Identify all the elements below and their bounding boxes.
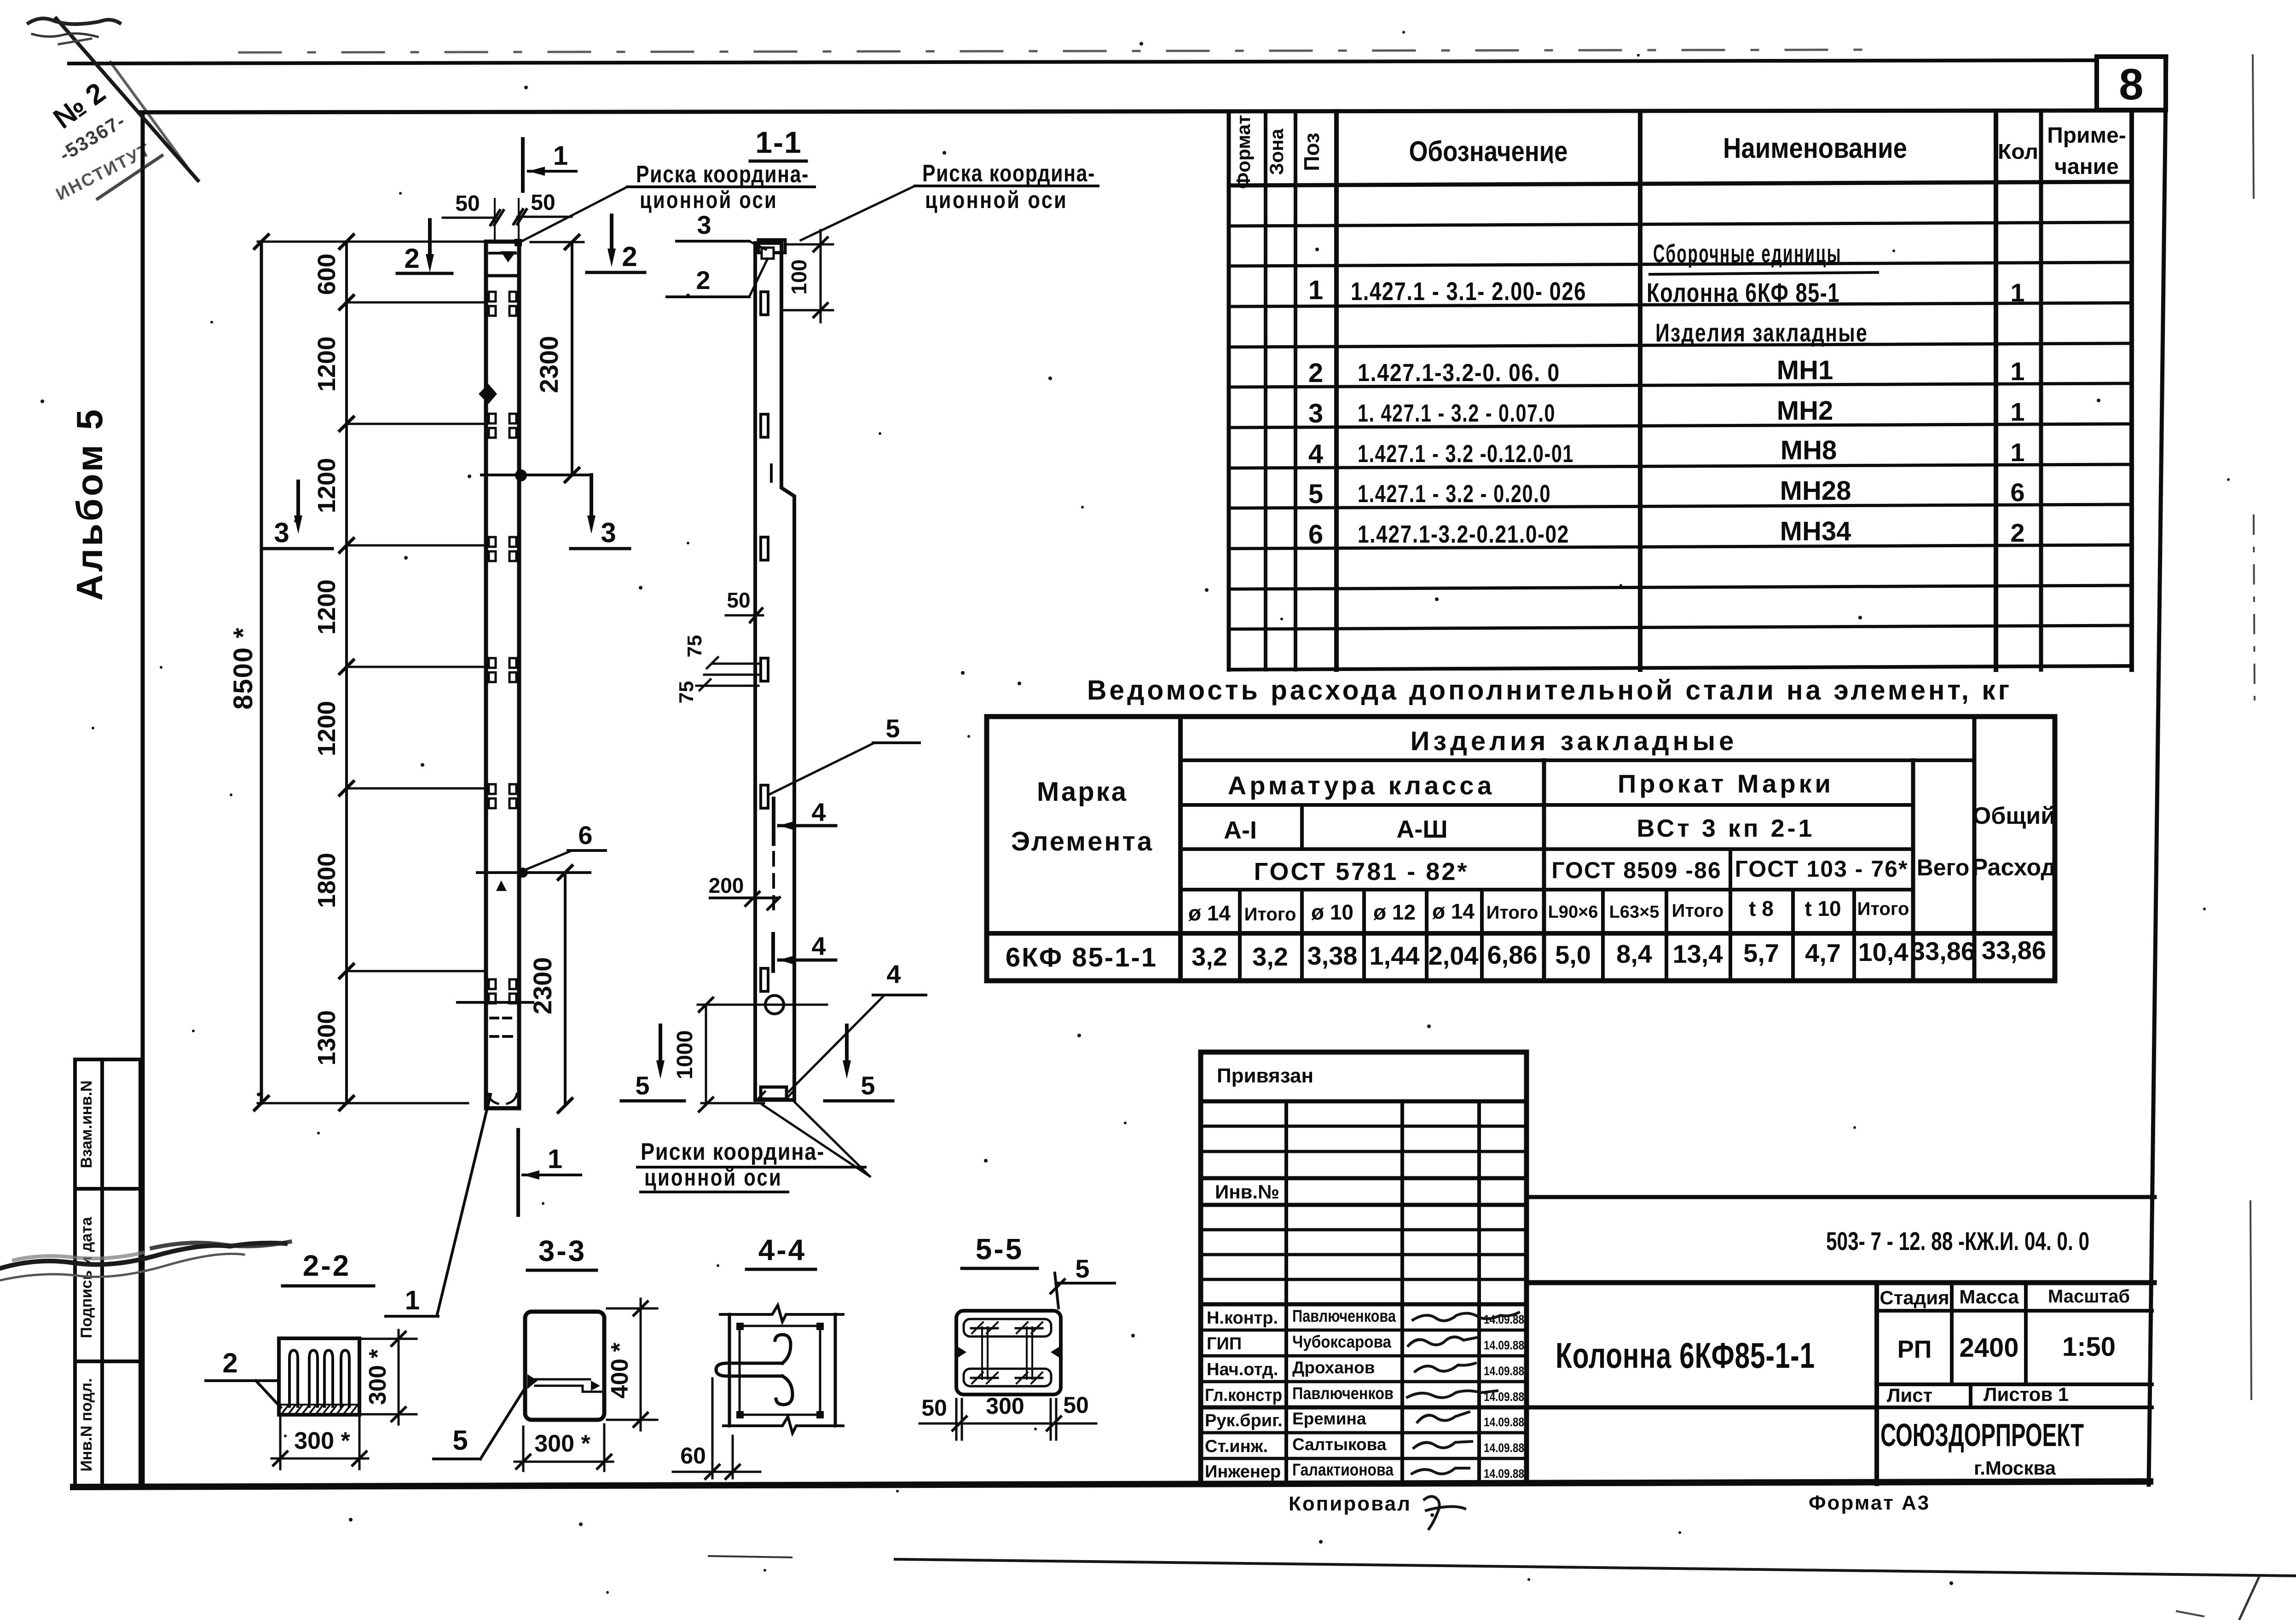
svg-text:А-I: А-I [1224,816,1257,844]
section mark 1 bottom [516,1130,520,1215]
section mark 2 left [428,220,432,258]
svg-text:5: 5 [885,714,900,743]
svg-text:Масштаб: Масштаб [2048,1286,2130,1307]
riska diamond left edge [479,384,497,404]
svg-text:4: 4 [811,798,826,827]
svg-text:Лист: Лист [1887,1384,1932,1406]
svg-text:3: 3 [601,517,616,548]
svg-text:Элемента: Элемента [1011,827,1154,856]
bottom slot [964,1369,1051,1386]
section 4-4 break top [720,1305,843,1322]
svg-text:3,38: 3,38 [1307,941,1358,970]
svg-text:4: 4 [811,931,826,960]
TITLE BLOCK stamp table grid [1201,1052,1527,1484]
svg-text:ø 14: ø 14 [1432,899,1475,923]
PARTS LIST TABLE grid [1229,111,2132,670]
svg-text:2-2: 2-2 [303,1249,351,1282]
svg-text:600: 600 [313,254,341,295]
svg-text:3,2: 3,2 [1252,942,1288,971]
section mark 3 left [296,481,300,519]
section 4-4 break bottom [723,1417,843,1433]
svg-text:5: 5 [861,1071,875,1100]
svg-text:14.09.88: 14.09.88 [1484,1313,1524,1326]
base plate [761,1087,787,1099]
section mark 4 upper [772,798,775,844]
svg-text:2300: 2300 [528,957,557,1015]
svg-text:2: 2 [1308,358,1323,388]
base corner notch left [488,1094,498,1104]
signature squiggles [1407,1313,1519,1474]
svg-text:Риски координа-: Риски координа- [641,1139,825,1165]
chain hatch ticks [340,235,353,1110]
svg-text:ционной оси: ционной оси [644,1164,782,1191]
svg-text:1.427.1 - 3.2 -0.12.0-01: 1.427.1 - 3.2 -0.12.0-01 [1358,440,1574,468]
drawing frame bottom [73,1481,2150,1487]
svg-text:Общий: Общий [1972,803,2055,829]
svg-text:ГИП: ГИП [1207,1334,1242,1354]
dim 50 right [517,216,572,218]
svg-text:чание: чание [2054,155,2119,179]
sheet number box [2097,57,2166,110]
margin box Vzam.inv.N [75,1059,140,1189]
svg-text:Чубоксарова: Чубоксарова [1292,1332,1391,1351]
dim 300 bottom [279,1417,282,1469]
svg-text:1.427.1-3.2-0.21.0-02: 1.427.1-3.2-0.21.0-02 [1358,521,1569,548]
svg-text:Поз: Поз [1300,133,1324,171]
section 4-4 sides [728,1314,731,1426]
svg-text:Ст.инж.: Ст.инж. [1205,1437,1268,1456]
svg-text:L90×6: L90×6 [1548,903,1598,922]
axis mark line 2300 bottom level [477,871,590,874]
svg-text:Ведомость расхода дополнител: Ведомость расхода дополнительной стали н… [1087,675,2012,706]
svg-text:Масса: Масса [1959,1286,2019,1308]
svg-text:200: 200 [709,874,744,897]
svg-text:33,86: 33,86 [1911,937,1975,966]
svg-text:Н.контр.: Н.контр. [1207,1308,1278,1328]
svg-text:503- 7 - 12. 88 -КЖ.И. 04. 0.: 503- 7 - 12. 88 -КЖ.И. 04. 0. 0 [1826,1227,2089,1255]
smudge streak left middle [0,1243,285,1268]
top slot [964,1319,1051,1336]
svg-text:ГОСТ 5781 - 82*: ГОСТ 5781 - 82* [1254,858,1469,885]
margin box Inv.N podl [75,1361,140,1487]
svg-text:50: 50 [1063,1392,1089,1418]
extension lines levels [258,242,486,1103]
svg-text:3-3: 3-3 [538,1234,587,1267]
svg-text:300 *: 300 * [534,1430,590,1457]
svg-text:50: 50 [921,1395,947,1421]
svg-text:75: 75 [675,681,698,704]
torn paper scribble top-left [29,18,120,24]
svg-text:ционной оси: ционной оси [925,187,1068,214]
svg-text:г.Москва: г.Москва [1974,1457,2056,1479]
svg-text:1: 1 [2010,397,2024,426]
svg-text:3: 3 [274,517,289,548]
svg-text:1: 1 [2010,438,2024,467]
drawing frame top [141,110,2166,112]
svg-text:3: 3 [1308,399,1323,428]
dashed axis segment [772,852,775,909]
hook bar [716,1363,782,1376]
svg-text:1200: 1200 [313,336,341,392]
svg-text:10,4: 10,4 [1858,937,1909,966]
svg-text:5,7: 5,7 [1743,938,1779,967]
svg-text:Копировал: Копировал [1289,1493,1411,1515]
svg-text:300: 300 [986,1393,1024,1419]
side notch right [1051,1346,1061,1359]
svg-text:Еремина: Еремина [1292,1409,1366,1428]
bottom ext line [701,1102,764,1105]
dim 50 300 50 [955,1399,958,1440]
svg-text:Рук.бриг.: Рук.бриг. [1205,1411,1283,1430]
svg-text:3: 3 [697,210,711,239]
dim 50 mid [726,614,763,617]
anchor stud right [1026,1327,1028,1379]
riski leaders [793,1101,870,1176]
svg-text:1000: 1000 [673,1030,697,1080]
section mark 2 right [610,215,613,252]
svg-text:5: 5 [1308,479,1323,509]
svg-text:Итого: Итого [1672,901,1724,921]
svg-text:8,4: 8,4 [1616,939,1652,968]
svg-text:Риска координа-: Риска координа- [922,160,1095,187]
svg-text:Риска координа-: Риска координа- [636,161,809,188]
riska label left top [522,187,627,241]
svg-text:6КФ 85-1-1: 6КФ 85-1-1 [1006,943,1157,972]
leader 5 [769,743,874,794]
center dash upper [770,465,773,481]
svg-text:14.09.88: 14.09.88 [1484,1338,1524,1352]
svg-text:4-4: 4-4 [758,1233,807,1267]
svg-text:6: 6 [1308,520,1323,550]
drawing frame right [2149,57,2166,1485]
svg-text:1: 1 [553,141,568,171]
svg-text:75: 75 [683,635,706,658]
svg-text:6,86: 6,86 [1487,940,1538,969]
dim 1000 [705,1005,707,1105]
embedded slot s6 [761,968,768,991]
svg-text:1.427.1 - 3.1- 2.00- 026: 1.427.1 - 3.1- 2.00- 026 [1351,277,1586,306]
svg-text:Колонна 6КФ85-1-1: Колонна 6КФ85-1-1 [1556,1335,1815,1376]
column body outline [486,242,519,1108]
svg-text:33,86: 33,86 [1982,936,2046,965]
svg-text:МН2: МН2 [1777,396,1833,426]
margin box Podpis i data [75,1189,140,1361]
svg-text:Салтыкова: Салтыкова [1292,1435,1387,1454]
kopiroval squiggle [1424,1496,1465,1529]
embedded slot s2 [761,414,768,437]
svg-text:Инв.N подл.: Инв.N подл. [78,1378,95,1472]
section 5-5 outline [956,1311,1061,1394]
title block right part grid [1527,1197,2155,1484]
section 2-2 square [279,1338,359,1415]
riska label right top [801,186,915,240]
plate inside [535,1378,590,1381]
svg-text:Вего: Вего [1917,855,1970,880]
svg-text:Гл.констр: Гл.констр [1205,1386,1282,1405]
top dash-dot fold line [239,50,1878,52]
svg-text:1.427.1 - 3.2 - 0.20.0: 1.427.1 - 3.2 - 0.20.0 [1358,480,1551,508]
embedded slot s1 [761,292,768,315]
svg-text:Расход: Расход [1972,854,2056,881]
riska dot right edge [515,469,527,481]
edge slot pair level 5 [489,784,516,808]
svg-text:Павлюченков: Павлюченков [1292,1384,1394,1403]
svg-text:ционной оси: ционной оси [640,187,778,214]
svg-text:Дроханов: Дроханов [1292,1358,1375,1377]
svg-text:400 *: 400 * [607,1342,633,1399]
svg-text:1.427.1-3.2-0. 06. 0: 1.427.1-3.2-0. 06. 0 [1358,359,1560,387]
svg-text:СОЮЗДОРПРОЕКТ: СОЮЗДОРПРОЕКТ [1880,1417,2084,1453]
plate hatch band [279,1405,359,1414]
edge slot pair level 2 [489,414,516,438]
svg-text:1: 1 [548,1144,562,1174]
svg-text:Наименование: Наименование [1723,133,1907,164]
section mark 1 top [521,139,525,191]
svg-text:50: 50 [727,588,750,612]
column top section line 2-2 level [486,274,519,278]
svg-text:60: 60 [680,1443,706,1469]
svg-text:4: 4 [886,960,901,989]
svg-text:1200: 1200 [313,458,341,513]
svg-text:ГОСТ 103 - 76*: ГОСТ 103 - 76* [1735,856,1909,882]
svg-text:5,0: 5,0 [1555,940,1591,969]
dim 2300 lower [564,873,567,1105]
svg-text:Кол: Кол [1998,139,2038,163]
svg-text:Изделия закладные: Изделия закладные [1655,318,1868,347]
svg-text:6: 6 [2010,478,2024,507]
dim 2300 upper [531,241,584,243]
edge slot pair level 6 [489,979,516,1003]
svg-text:Сборочные единицы: Сборочные единицы [1653,239,1842,268]
dim 300 bottom [522,1427,525,1471]
hole axis line [698,1004,827,1006]
svg-text:8500 *: 8500 * [228,627,258,710]
svg-text:2: 2 [696,266,710,295]
svg-text:Листов 1: Листов 1 [1984,1383,2069,1405]
dim 100 top [788,243,833,246]
svg-text:Обозначение: Обозначение [1409,136,1568,168]
svg-text:Инженер: Инженер [1205,1462,1281,1481]
dim chain line 8500 [260,242,263,1103]
svg-text:Изделия закладные: Изделия закладные [1411,726,1738,756]
svg-text:4,7: 4,7 [1805,938,1841,967]
svg-text:2: 2 [222,1348,237,1378]
edge slot pair level 3 [489,537,516,561]
svg-text:2: 2 [404,243,419,274]
svg-text:Марка: Марка [1037,777,1128,807]
svg-text:1200: 1200 [313,701,341,756]
dim 60 [711,1378,714,1478]
svg-text:1,44: 1,44 [1370,941,1420,970]
svg-text:14.09.88: 14.09.88 [1484,1390,1524,1404]
svg-text:300 *: 300 * [364,1349,391,1405]
svg-text:2: 2 [2010,518,2024,547]
anchor loop b [309,1350,318,1406]
svg-text:1-1: 1-1 [755,125,802,159]
svg-text:2300: 2300 [534,336,563,393]
dim 200 [710,897,778,899]
svg-text:1200: 1200 [313,579,341,635]
side notch left [956,1346,966,1359]
svg-text:50: 50 [531,191,555,215]
svg-text:Колонна 6КФ 85-1: Колонна 6КФ 85-1 [1647,278,1840,308]
svg-text:ГОСТ 8509 -86: ГОСТ 8509 -86 [1551,857,1721,883]
embedded slot s3 [761,537,768,560]
svg-text:Зона: Зона [1266,128,1287,175]
svg-text:100: 100 [787,260,811,295]
svg-text:3,2: 3,2 [1191,942,1227,971]
svg-text:1300: 1300 [313,1010,341,1065]
rebar frame [740,1326,820,1415]
axis mark line 2300 top level [481,474,591,476]
svg-text:Приме-: Приме- [2047,123,2126,148]
svg-text:t 10: t 10 [1804,897,1841,920]
drawing frame left [141,112,145,1486]
svg-text:1: 1 [405,1285,420,1315]
anchor loop c [324,1350,333,1406]
svg-text:ø 12: ø 12 [1373,900,1416,924]
svg-text:2,04: 2,04 [1428,941,1479,970]
svg-text:300 *: 300 * [294,1428,350,1454]
anchor stud left [981,1327,983,1379]
section 3-3 square [525,1312,604,1420]
edge slot pair level 1 [489,292,516,316]
dim chain line segments [345,242,348,1103]
svg-text:1: 1 [2010,278,2024,307]
section mark 3 right step [590,475,593,519]
base corner notch right [507,1094,517,1104]
top solid rule [69,60,2097,64]
svg-text:14.09.88: 14.09.88 [1484,1467,1524,1481]
svg-text:МН1: МН1 [1777,355,1833,385]
riska dot for item 6 [518,868,528,878]
edge slot pair level 4 [489,658,516,682]
dim 75 75 marks [712,663,758,665]
svg-text:Прокат Марки: Прокат Марки [1618,769,1834,798]
riska triangle inside [496,880,507,891]
svg-text:14.09.88: 14.09.88 [1484,1415,1524,1429]
svg-text:Итого: Итого [1486,903,1538,923]
svg-text:1:50: 1:50 [2062,1332,2116,1362]
base level line [457,1001,533,1004]
svg-text:Формат: Формат [1232,115,1254,189]
corner stamp diagonals [56,18,198,199]
paper bottom edge line [895,1559,2296,1576]
svg-text:1: 1 [1308,275,1323,305]
anchor loop d [341,1350,349,1406]
svg-text:МН28: МН28 [1780,476,1851,506]
dim 50 left [443,217,496,219]
svg-text:50: 50 [455,191,480,216]
svg-text:Итого: Итого [1244,904,1296,925]
hole circle [765,995,784,1014]
top cap plate [758,240,785,253]
column side outline [755,243,794,1100]
svg-text:Арматура класса: Арматура класса [1228,771,1495,800]
svg-text:Альбом 5: Альбом 5 [69,407,110,601]
column top cap slot [490,252,515,255]
svg-text:Стадия: Стадия [1880,1287,1949,1308]
svg-text:РП: РП [1897,1336,1932,1363]
svg-text:L63×5: L63×5 [1609,903,1660,922]
svg-text:Павлюченкова: Павлюченкова [1292,1307,1396,1325]
svg-text:1800: 1800 [313,853,341,908]
svg-text:8: 8 [2119,60,2143,109]
svg-text:14.09.88: 14.09.88 [1484,1364,1524,1378]
svg-text:2400: 2400 [1959,1333,2018,1363]
svg-text:МН8: МН8 [1781,435,1837,465]
anchor loop a [289,1350,298,1406]
svg-text:13,4: 13,4 [1673,939,1723,968]
embedded slot s5 [761,785,768,808]
svg-text:5-5: 5-5 [976,1232,1024,1266]
embedded slot s4 [761,658,768,681]
section mark 5 bottom right [845,1025,849,1064]
dim 400 right [607,1308,657,1310]
hidden slot dashes at base [491,1018,512,1036]
svg-text:МН34: МН34 [1780,516,1851,546]
section mark 5 bottom left [659,1025,662,1064]
svg-text:Формат А3: Формат А3 [1809,1492,1930,1514]
steel table grid [987,717,2055,981]
svg-text:5: 5 [635,1071,649,1100]
section mark 4 lower [771,934,775,971]
leader item 6 [525,851,570,870]
svg-text:Нач.отд.: Нач.отд. [1207,1360,1278,1379]
svg-text:ø 10: ø 10 [1311,900,1353,924]
svg-text:5: 5 [452,1425,468,1456]
svg-text:Взам.инв.N: Взам.инв.N [78,1081,95,1169]
svg-text:ВСт 3 кп 2-1: ВСт 3 кп 2-1 [1637,815,1815,842]
svg-text:14.09.88: 14.09.88 [1484,1441,1524,1455]
svg-text:6: 6 [578,821,592,850]
svg-text:1. 427.1 - 3.2 - 0.07.0: 1. 427.1 - 3.2 - 0.07.0 [1358,399,1556,427]
svg-text:5: 5 [1075,1254,1089,1283]
svg-text:4: 4 [1308,439,1323,469]
svg-text:Галактионова: Галактионова [1292,1460,1394,1479]
svg-text:Итого: Итого [1857,899,1909,919]
svg-text:А-Ш: А-Ш [1396,816,1447,843]
mark 5 top right [1055,1273,1058,1308]
svg-text:t 8: t 8 [1749,897,1774,920]
svg-text:Привязан: Привязан [1217,1065,1313,1087]
right torn edge marks [2253,55,2254,198]
svg-text:1: 1 [2010,357,2024,386]
svg-text:Инв.№: Инв.№ [1215,1181,1279,1203]
svg-text:2: 2 [622,241,637,272]
dim 300 right [359,1338,416,1340]
svg-text:ø 14: ø 14 [1188,901,1231,925]
